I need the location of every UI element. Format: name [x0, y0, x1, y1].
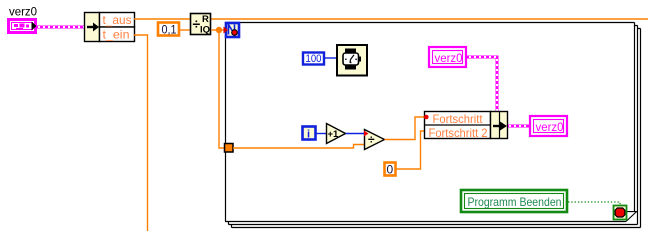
coercion dot bundle input — [424, 115, 429, 120]
wire increment to divide — [346, 133, 365, 135]
quotient and remainder node — [191, 14, 211, 36]
svg-text:verz0: verz0 — [9, 5, 37, 19]
coercion dot divide input — [364, 131, 369, 137]
cluster wire bundle to local verz0 — [508, 125, 529, 128]
wire QR IQ output to N terminal — [211, 29, 225, 31]
numeric constant 0 — [385, 163, 396, 177]
tunnel — [225, 144, 234, 153]
svg-text:Fortschritt: Fortschritt — [433, 112, 484, 126]
wire junction down to tunnel — [219, 30, 225, 148]
divide function — [365, 130, 385, 150]
loop corner fold — [626, 212, 637, 222]
wire tunnel to divide lower input — [233, 145, 364, 149]
svg-text:Programm Beenden: Programm Beenden — [468, 195, 562, 209]
wire divide to bundle Fortschritt — [385, 117, 425, 140]
cluster control verz0 — [9, 20, 37, 33]
bundle by name node — [425, 112, 508, 141]
svg-text:+1: +1 — [328, 129, 340, 140]
wire 100 to wait — [325, 57, 336, 59]
svg-text:0: 0 — [387, 163, 394, 177]
cluster wire local verz0 to bundle — [467, 57, 497, 111]
iteration terminal i — [303, 127, 316, 141]
cluster wire control to unbundle — [36, 26, 84, 29]
svg-text:R: R — [202, 14, 209, 25]
svg-text:verz0: verz0 — [536, 120, 564, 134]
wire QR R output to right edge — [211, 18, 648, 20]
svg-text:t_aus: t_aus — [103, 13, 132, 27]
svg-text:i: i — [307, 129, 310, 141]
numeric constant 0,1 — [158, 23, 179, 37]
svg-text:0,1: 0,1 — [162, 23, 177, 37]
while loop frame — [225, 22, 641, 228]
svg-text:100: 100 — [306, 53, 322, 65]
svg-text:t_ein: t_ein — [103, 28, 130, 42]
svg-text:verz0: verz0 — [435, 51, 463, 65]
wire t_aus to QR input — [134, 18, 190, 20]
boolean wire to conditional terminal — [568, 202, 620, 206]
svg-text:Fortschritt 2: Fortschritt 2 — [429, 126, 488, 140]
wire i to increment — [316, 133, 327, 135]
loop conditional terminal stop — [614, 206, 627, 220]
local variable verz0 upper — [429, 47, 466, 67]
increment function — [327, 124, 346, 144]
local variable verz0 right — [530, 116, 567, 136]
svg-text:IQ: IQ — [200, 25, 210, 36]
wire 0 to bundle Fortschritt 2 — [396, 131, 424, 169]
numeric constant 100 — [303, 53, 324, 66]
junction — [216, 27, 222, 33]
wire t_ein down — [134, 35, 148, 231]
svg-text:÷: ÷ — [368, 133, 375, 147]
wire 0,1 to QR — [180, 29, 190, 31]
loop count terminal N — [224, 23, 240, 37]
unbundle by name node — [85, 13, 135, 42]
boolean control Programm Beenden — [461, 190, 567, 212]
wait ms function — [337, 45, 367, 76]
